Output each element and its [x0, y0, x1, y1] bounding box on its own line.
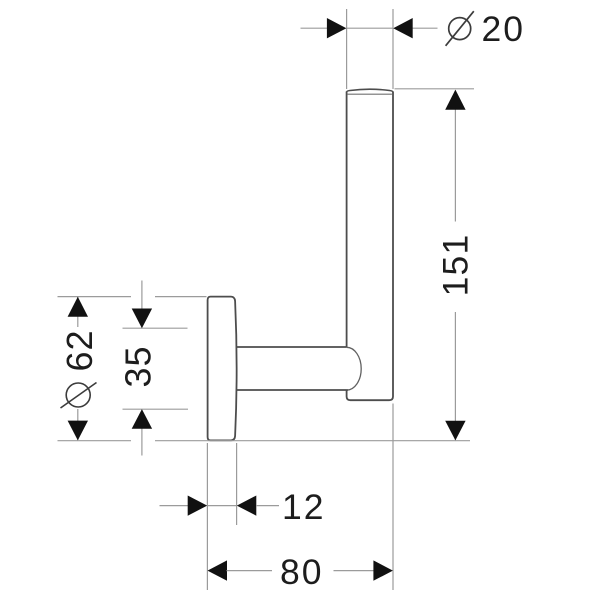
tube lower-left edge, bottom and right edge — [347, 92, 393, 401]
dim 12 right extension line — [236, 443, 238, 525]
dim d20 extension line right — [392, 9, 394, 89]
dim d62 top extension line segment a — [58, 296, 132, 298]
tube left edge — [346, 92, 348, 348]
dim d20 dimension line — [347, 27, 393, 29]
svg-text:62: 62 — [59, 329, 100, 371]
dim d20 left leader — [301, 27, 329, 29]
dim d62 up arrow — [68, 297, 88, 317]
dim 12 left arrow — [188, 496, 208, 516]
dim 80 left line — [227, 570, 273, 572]
dim 80 right extension line — [392, 404, 394, 591]
svg-text:12: 12 — [282, 487, 326, 527]
wall plate (rosette) outline — [208, 297, 237, 441]
dim 80 right line — [334, 570, 375, 572]
dim d62 diameter symbol (rotated) — [61, 383, 97, 409]
dim 35 down arrow — [132, 309, 152, 329]
dim 12 left extension line — [206, 443, 208, 590]
dim d20 left arrow — [327, 18, 347, 38]
svg-text:20: 20 — [482, 9, 526, 49]
dim 35 top boundary line — [123, 327, 188, 329]
dim d20 extension line left — [346, 9, 348, 89]
dim d20 diameter symbol — [446, 11, 474, 46]
dim d62 dimension line lower segment — [77, 409, 79, 440]
arm top line — [237, 346, 347, 348]
dim 80 left arrow — [208, 560, 228, 580]
svg-text:151: 151 — [436, 234, 476, 297]
dim 35 upper leader line — [141, 281, 143, 310]
dim 12 left leader — [160, 505, 190, 507]
tube cap seam line — [348, 93, 392, 95]
dim 80 right arrow — [373, 560, 393, 580]
dim d20 right leader — [412, 27, 438, 29]
dim 151 bottom extension line (long) — [58, 440, 132, 442]
dim 35 up arrow — [132, 409, 152, 429]
dim 35 lower leader line — [141, 429, 143, 456]
dim 151 up arrow — [445, 90, 465, 110]
dim 12 right arrow — [237, 496, 256, 516]
dim 151 down arrow — [445, 421, 465, 441]
dim d62 dimension line upper segment — [77, 297, 79, 327]
tube top cap dome — [347, 89, 393, 92]
dim d20 right arrow — [393, 18, 413, 38]
dim 151 dimension line lower segment — [454, 312, 456, 440]
dim d62 down arrow — [68, 421, 88, 441]
elbow transition arc — [347, 347, 362, 390]
dim 12 middle line — [207, 505, 236, 507]
dim 12 right leader — [256, 505, 279, 507]
svg-text:35: 35 — [118, 345, 159, 387]
dim 151 top connector line — [395, 88, 475, 90]
svg-text:80: 80 — [280, 552, 324, 592]
dim 151 bottom extension line (right part) — [155, 440, 470, 442]
dim 35 bottom boundary line — [123, 408, 189, 410]
dim d62 top extension line segment b — [155, 296, 207, 298]
arm bottom line — [237, 389, 348, 391]
dim 151 dimension line upper segment — [454, 91, 456, 222]
